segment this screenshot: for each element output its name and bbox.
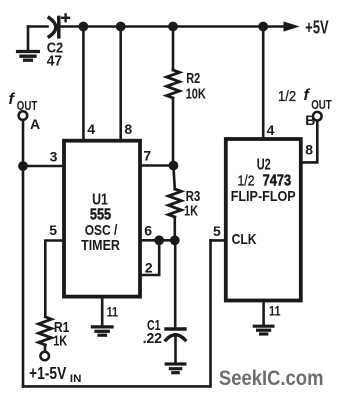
label C1 (147, 317, 161, 334)
resistor R3 (168, 189, 181, 217)
wire junction to R3 (173, 166, 174, 190)
label R3 (186, 188, 201, 205)
value 1K (R1) (53, 332, 67, 349)
node f OUT A labels (9, 91, 16, 108)
junction dot top rail / pin4 U2 (259, 22, 268, 31)
svg-text:+5V: +5V (305, 17, 328, 37)
svg-text:FLIP-FLOP: FLIP-FLOP (231, 188, 296, 205)
junction dot top rail / pin8 U1 (116, 22, 125, 31)
wire U1 pin 11 (101, 297, 104, 326)
pin 6 (U1) (144, 222, 152, 238)
svg-text:1K: 1K (53, 332, 67, 349)
value 1K (R3) (184, 203, 198, 220)
label R1 (54, 319, 70, 336)
resistor R2 (167, 70, 180, 98)
svg-text:11: 11 (269, 302, 281, 318)
value 10K (186, 86, 206, 103)
wire U1 pin 2 loop (140, 240, 159, 275)
svg-text:10K: 10K (186, 86, 206, 103)
svg-text:A: A (30, 116, 40, 132)
ground GND3 (C1) (166, 364, 185, 373)
svg-text:B: B (305, 112, 315, 128)
value 555 (90, 206, 111, 223)
wire top rail (C2 to arrow) (59, 25, 287, 28)
wire R1 to input terminal (44, 345, 47, 352)
capacitor C1 (166, 329, 185, 340)
wire bottom run to CLK (23, 240, 211, 386)
svg-text:SeekIC.com: SeekIC.com (219, 366, 324, 390)
pin 5 (U2) (213, 223, 221, 239)
wire U1 pin 5 (45, 241, 64, 317)
svg-text:8: 8 (124, 121, 132, 137)
value 47 (47, 53, 62, 70)
pin 3 (U1) (50, 148, 58, 164)
watermark SeekIC.com (219, 366, 324, 390)
value .22 (143, 330, 163, 347)
wire C1 to ground (174, 335, 177, 363)
pin label CLK (232, 231, 257, 248)
junction dot pin6 / pin2 loop (155, 236, 164, 245)
label OSC / (85, 222, 118, 239)
svg-text:U2: U2 (257, 157, 271, 174)
pin 4 (U2) (267, 122, 275, 138)
ground GND2 (U1 pin 11) (92, 327, 112, 335)
pin 8 (U1) (124, 121, 132, 137)
power +5V arrowhead (284, 22, 298, 31)
ground GND4 (U2 pin 11) (254, 326, 273, 334)
svg-text:47: 47 (47, 53, 62, 70)
junction dot top rail / pin4 U1 (79, 22, 88, 31)
pin 11 (U1) (107, 304, 119, 320)
wire U1 pin 6 (140, 239, 175, 242)
svg-text:1/2: 1/2 (278, 88, 296, 105)
value 7473 (263, 173, 292, 190)
wire R3 to pin6 junction (174, 217, 177, 240)
svg-text:4: 4 (87, 121, 95, 137)
node +1-5V IN label (29, 363, 67, 383)
svg-text:1K: 1K (184, 203, 198, 220)
op IC U1 label U1 (92, 191, 108, 208)
label C2 (47, 40, 64, 57)
svg-text:CLK: CLK (232, 231, 257, 248)
svg-text:555: 555 (90, 206, 111, 223)
pin 8 (U2) (305, 142, 313, 158)
node 1/2 f OUT B labels (278, 88, 296, 105)
svg-text:TIMER: TIMER (81, 237, 120, 254)
IC U2 label U2 (257, 157, 271, 174)
terminal A (19, 111, 28, 120)
junction dot top rail / R2 branch (169, 22, 178, 31)
IC U1 box (64, 141, 140, 297)
svg-text:6: 6 (144, 222, 152, 238)
wire U1 pin 4 drop (82, 27, 85, 140)
svg-text:11: 11 (107, 304, 119, 320)
svg-text:2: 2 (145, 260, 153, 276)
terminal B (313, 112, 322, 121)
svg-text:5: 5 (49, 222, 57, 238)
label +5V (305, 17, 328, 37)
wire U2 pin 4 drop (262, 27, 265, 140)
pin 4 (U1) (87, 121, 95, 137)
junction dot pin7 / R2-R3 (169, 161, 178, 170)
svg-text:OUT: OUT (311, 97, 332, 112)
svg-text:3: 3 (50, 148, 58, 164)
wire U1 pin 7 (140, 164, 173, 167)
pin 7 (U1) (143, 148, 151, 164)
label TIMER (81, 237, 120, 254)
ground GND1 (18, 52, 39, 61)
wire R2 to pin7 junction (172, 98, 175, 166)
svg-text:R2: R2 (186, 70, 200, 87)
capacitor C2 (49, 17, 59, 36)
wire top rail left segment (ground to C2) (28, 25, 48, 28)
C2 polarity plus (62, 14, 69, 21)
svg-text:.22: .22 (143, 330, 163, 347)
pin 2 (U1) (145, 260, 153, 276)
junction dot node A / pin3 (19, 162, 28, 171)
wire U2 pin 8 (301, 121, 318, 162)
ground GND1 riser wire (27, 27, 30, 50)
wire U2 pin 5 CLK (211, 239, 226, 242)
svg-text:7: 7 (143, 148, 151, 164)
resistor R1 (39, 317, 52, 345)
svg-text:OUT: OUT (17, 98, 38, 113)
pin 11 (U2) (269, 302, 281, 318)
terminal +1-5V IN (40, 352, 49, 361)
wire R2 branch top (172, 27, 175, 71)
svg-text:8: 8 (305, 142, 313, 158)
wire U1 pin 8 drop (119, 27, 122, 140)
pin 5 (U1) (49, 222, 57, 238)
label R2 (186, 70, 200, 87)
junction dot pin6 / C1 branch (170, 236, 179, 245)
svg-text:5: 5 (213, 223, 221, 239)
wire C1 branch (174, 240, 177, 329)
wire U1 pin 3 (23, 165, 64, 168)
IC U2 box (226, 139, 301, 301)
svg-text:+1-5V: +1-5V (29, 363, 67, 383)
svg-text:IN: IN (70, 373, 82, 385)
wire node A down left side (22, 120, 25, 386)
svg-text:4: 4 (267, 122, 275, 138)
label 1/2 (U2) (238, 173, 255, 190)
label FLIP-FLOP (231, 188, 296, 205)
wire U2 pin 11 (262, 301, 265, 325)
